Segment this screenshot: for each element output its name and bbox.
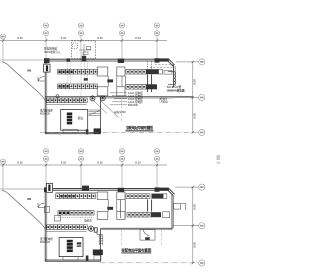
- rooftop unit box on wall (lower): [47, 183, 53, 192]
- big end cabinet row1 left (upper): [97, 67, 125, 76]
- dark dot overlay first cells (lower): [59, 195, 75, 214]
- dimension text 8.10 upper seg4: [135, 36, 141, 40]
- svg-text:380V电源引入: 380V电源引入: [44, 50, 61, 54]
- axis bubble 1/A upper-left single: [1, 34, 6, 39]
- dimension text 5.10 upper seg2: [61, 36, 67, 40]
- axis bubble pair x46 lower: [43, 149, 48, 167]
- dark dot overlay first cells (upper): [58, 71, 72, 88]
- small box left of coils (upper): [164, 71, 172, 75]
- dark duct columns in rows (upper): [148, 61, 152, 92]
- svg-text:3W: 3W: [27, 197, 32, 201]
- svg-text:800x600: 800x600: [40, 111, 51, 115]
- dashed axis drop lines (lower): [121, 230, 161, 246]
- annotation text left (lower): [40, 237, 53, 244]
- svg-text:9.00: 9.00: [193, 79, 197, 85]
- switchgear row 1 group 2 (upper): [126, 69, 163, 74]
- axis bubble C right (lower): [199, 260, 205, 266]
- tiny label below row2 (lower): [84, 219, 92, 223]
- axis line B right (upper): [174, 97, 199, 99]
- svg-text:9.00: 9.00: [193, 204, 197, 210]
- aisle mini label (upper): [84, 78, 88, 80]
- window on bottom wall (lower): [63, 257, 78, 260]
- left wall upper plan: [45, 60, 47, 134]
- site boundary thin line left (lower): [0, 188, 45, 190]
- svg-text:9.00: 9.00: [193, 113, 197, 119]
- door box on left wall (lower): [44, 206, 49, 212]
- main hall bottom wall (lower): [101, 228, 172, 229]
- interior dashed lines near top-right (upper): [150, 65, 174, 68]
- canopy door bottom (lower): [140, 230, 155, 241]
- dashed cable drops between rows (upper): [68, 61, 88, 104]
- svg-text:800x600: 800x600: [128, 103, 139, 107]
- aisle label (lower): [107, 207, 113, 210]
- switchgear row 3 (upper): [46, 98, 87, 105]
- axis bubble A right (upper): [199, 59, 205, 65]
- big end cabinets row1 (lower): [97, 192, 125, 200]
- svg-text:8.10: 8.10: [97, 36, 103, 40]
- main hall bottom wall (upper): [45, 97, 193, 98]
- corridor walls mid (upper): [122, 76, 126, 87]
- right dimension line (upper): [192, 61, 197, 134]
- dimension line top (upper plan): [0, 40, 167, 42]
- dashed box internals: [73, 43, 91, 56]
- switchgear row 1 group 1 (upper): [58, 69, 98, 74]
- cable label 3W (lower): [27, 197, 32, 201]
- switchgear row 1 group 1 (lower): [56, 194, 96, 199]
- axis line B right (lower): [172, 225, 199, 227]
- title lower plan: [121, 247, 151, 253]
- switchgear row 3 (lower): [46, 225, 87, 232]
- axis bubble single lower-left: [1, 159, 6, 164]
- svg-text:8.10: 8.10: [17, 36, 23, 40]
- annotation lower small (upper): [160, 97, 169, 104]
- axis bubble pair x122 upper: [119, 23, 124, 41]
- window on bottom wall (upper): [63, 129, 78, 132]
- big end cabinets row2 (lower): [97, 212, 125, 220]
- axis line A right (upper): [176, 61, 199, 63]
- incoming cabinet on left wall (upper): [44, 64, 50, 72]
- inner room (lower): [59, 238, 83, 257]
- svg-text:8.10: 8.10: [135, 36, 141, 40]
- small valve circle on wall (upper): [56, 95, 59, 98]
- aisle corridor walls (lower): [108, 200, 117, 212]
- transformer coils right (upper): [168, 72, 176, 85]
- annotation text left (upper): [40, 109, 53, 116]
- jog wall below (lower): [97, 230, 102, 235]
- chamfer corner lower: [168, 188, 175, 195]
- faint edge text right (lower): [217, 155, 221, 164]
- small cabinet below row2 start (lower): [55, 216, 61, 222]
- dashed axis drop line (upper): [120, 98, 122, 121]
- axis bubble B right (upper): [199, 94, 205, 100]
- room label (upper): [78, 116, 84, 120]
- svg-text:800x600: 800x600: [40, 240, 51, 244]
- left room walls (lower): [45, 228, 100, 261]
- svg-text:值班: 值班: [78, 116, 84, 120]
- equipment stack in inner room (upper): [67, 113, 72, 125]
- curved road arc (upper): [2, 62, 45, 101]
- axis vertical lines upper: [3, 39, 157, 60]
- axis bubble pair x157 upper: [154, 23, 159, 41]
- axis bubble pair x122 lower: [119, 149, 124, 167]
- dimension text 8.10 upper seg3: [97, 36, 103, 40]
- wall columns lower: [44, 186, 169, 193]
- annotation text near dashed box (upper): [44, 47, 61, 54]
- left wall lower plan: [45, 189, 47, 261]
- axis bubble pair x81 upper: [78, 23, 83, 41]
- switchgear row 2 group 1 (lower): [58, 210, 94, 215]
- equipment stack in inner room (lower): [67, 240, 73, 252]
- left room walls (upper): [45, 97, 100, 134]
- dimension text 8.10 lower seg4: [135, 161, 141, 165]
- cable label 3W (upper): [27, 68, 32, 72]
- svg-text:电缆沟: 电缆沟: [84, 219, 92, 223]
- aisle label (upper): [107, 79, 113, 82]
- svg-text:8.10: 8.10: [17, 161, 23, 165]
- door porch right (lower): [174, 204, 186, 211]
- svg-text:5.10: 5.10: [61, 161, 67, 165]
- switchgear row 2 group 2 (upper): [126, 84, 157, 89]
- dashed equipment box above wall (upper plan): [72, 41, 96, 59]
- ladder on room wall (lower): [99, 234, 103, 245]
- axis bubble A right (lower): [199, 184, 205, 190]
- inner room (upper): [61, 110, 88, 131]
- door jamb bottom wall (lower): [86, 256, 89, 262]
- dark corner block (upper): [94, 128, 101, 133]
- stair hatch right of inner room (upper): [89, 110, 101, 115]
- right dimension line (lower): [192, 186, 197, 264]
- axis bubble pair x157 lower: [154, 149, 159, 167]
- small marks in room (lower): [77, 242, 81, 247]
- axis tick marks upper: [2, 39, 158, 42]
- switchgear row 2 group 2 (lower): [127, 212, 170, 218]
- dimension line top (lower plan): [0, 164, 167, 166]
- svg-text:8.10: 8.10: [135, 161, 141, 165]
- axis ticks lower: [2, 164, 158, 167]
- axis bubble C right (upper): [199, 129, 205, 135]
- svg-text:变配电站平面布置图: 变配电站平面布置图: [121, 247, 151, 252]
- svg-text:8.10: 8.10: [97, 161, 103, 165]
- svg-text:5.10: 5.10: [61, 36, 67, 40]
- top wall upper plan: [45, 59, 169, 61]
- leader diagonals from pumps (upper): [94, 101, 119, 118]
- right wall lower plan: [172, 194, 174, 229]
- leader annotations right of room (upper): [110, 91, 143, 107]
- axis bubble pair x46 upper: [43, 23, 48, 41]
- chamfer corner upper: [168, 59, 175, 66]
- dark corner mass (lower): [93, 250, 103, 260]
- site boundary thin line left (upper): [0, 59, 45, 61]
- dimension text 8.10 upper seg1: [17, 36, 23, 40]
- curved road arc (lower): [2, 190, 45, 229]
- svg-text:LR配电: LR配电: [160, 99, 169, 103]
- door jamb bottom wall (upper): [86, 129, 89, 134]
- big end cabinet row2 (upper): [97, 87, 125, 96]
- dotted line below row2 (lower): [58, 216, 92, 218]
- corridor walls mid (lower): [121, 200, 126, 219]
- aisle corridor walls (upper): [108, 76, 117, 87]
- dimension text 8.10 lower seg1: [17, 161, 23, 165]
- busbar line above row1 (lower): [56, 192, 98, 194]
- axis vertical lines lower: [3, 164, 157, 190]
- dark duct columns in rows (lower): [148, 200, 152, 212]
- door swing left (upper): [38, 77, 45, 81]
- svg-text:9.00: 9.00: [193, 242, 197, 248]
- transformer annotation (upper): [167, 85, 185, 92]
- small text below leaders (upper): [114, 110, 126, 114]
- svg-text:变配电站平面布置图: 变配电站平面布置图: [126, 125, 153, 130]
- axis bubble pair x81 lower: [78, 149, 83, 167]
- pump circle (lower): [88, 226, 97, 232]
- door swing left (lower): [38, 203, 45, 207]
- switchgear row 1 group 2 (lower): [126, 194, 167, 199]
- pump circles (upper): [90, 96, 105, 101]
- axis bubble B right (lower): [199, 223, 205, 229]
- axis line A right (lower): [175, 186, 199, 188]
- svg-text:3W: 3W: [27, 68, 32, 72]
- axis line C dash-dot (lower): [100, 262, 199, 264]
- svg-text:电缆沟300: 电缆沟300: [114, 110, 126, 114]
- title upper plan: [126, 125, 154, 131]
- wall columns (hatched) upper: [44, 56, 169, 63]
- right wall upper plan: [174, 65, 176, 87]
- dimension text 5.10 lower seg2: [61, 161, 67, 165]
- dimension text 8.10 lower seg3: [97, 161, 103, 165]
- top wall lower plan: [45, 188, 169, 190]
- svg-text:1000kVA变压器: 1000kVA变压器: [167, 88, 185, 92]
- axis line C dash-dot (upper): [40, 132, 199, 134]
- switchgear row 2 group 1 (upper): [58, 84, 98, 89]
